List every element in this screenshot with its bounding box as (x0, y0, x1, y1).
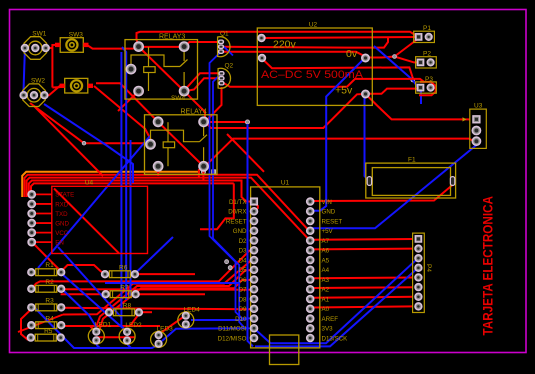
svg-text:+5v: +5v (335, 85, 353, 97)
svg-text:D4: D4 (239, 257, 247, 264)
svg-text:R4: R4 (45, 316, 54, 323)
svg-text:P3: P3 (425, 76, 433, 83)
svg-text:STATE: STATE (55, 192, 74, 199)
svg-text:P1: P1 (423, 25, 431, 32)
svg-text:220v: 220v (273, 38, 297, 50)
svg-text:VIN: VIN (322, 199, 332, 206)
svg-text:3V3: 3V3 (322, 326, 334, 333)
svg-text:RXD: RXD (55, 201, 69, 208)
svg-text:A5: A5 (322, 257, 330, 264)
svg-text:R1: R1 (45, 262, 54, 269)
svg-text:GND: GND (322, 209, 336, 216)
svg-text:D0/RX: D0/RX (228, 209, 246, 216)
svg-text:A4: A4 (322, 267, 330, 274)
svg-text:U2: U2 (309, 22, 318, 29)
svg-text:EN: EN (55, 239, 64, 246)
svg-text:R5: R5 (44, 328, 53, 335)
svg-text:LED2: LED2 (125, 322, 142, 329)
svg-text:Q2: Q2 (225, 63, 234, 70)
svg-text:AREF: AREF (322, 316, 339, 323)
svg-text:LED4: LED4 (184, 306, 201, 313)
svg-text:AC–DC 5V 500mA: AC–DC 5V 500mA (261, 69, 364, 81)
svg-text:A1: A1 (322, 296, 330, 303)
svg-text:GND: GND (55, 220, 69, 227)
svg-text:F1: F1 (408, 157, 416, 164)
svg-text:+5V: +5V (322, 228, 334, 235)
svg-text:LED3: LED3 (157, 325, 174, 332)
svg-text:R3: R3 (45, 298, 54, 305)
svg-text:D9: D9 (239, 306, 247, 313)
svg-text:R6: R6 (119, 265, 128, 272)
svg-text:VCC: VCC (55, 230, 69, 237)
svg-text:D1/TX: D1/TX (229, 199, 247, 206)
svg-text:TXD: TXD (55, 211, 68, 218)
svg-text:R8: R8 (123, 303, 132, 310)
svg-text:SW1: SW1 (32, 31, 46, 38)
svg-text:RELAY4: RELAY4 (181, 109, 207, 116)
svg-text:R7: R7 (120, 285, 129, 292)
svg-text:GND: GND (233, 228, 247, 235)
svg-text:D5: D5 (239, 267, 247, 274)
svg-text:RESET: RESET (226, 218, 247, 225)
svg-text:D7: D7 (239, 287, 247, 294)
svg-text:A3: A3 (322, 277, 330, 284)
svg-text:U3: U3 (474, 103, 483, 110)
svg-text:P2: P2 (423, 51, 431, 58)
svg-text:D6: D6 (239, 277, 247, 284)
svg-text:LED1: LED1 (95, 322, 112, 329)
svg-text:R2: R2 (45, 279, 54, 286)
svg-text:TARJETA ELECTRONICA: TARJETA ELECTRONICA (480, 196, 496, 336)
svg-text:A2: A2 (322, 287, 330, 294)
svg-text:D11/MOSI: D11/MOSI (218, 326, 247, 333)
svg-text:D12/MISO: D12/MISO (218, 335, 247, 342)
svg-text:D8: D8 (239, 296, 247, 303)
svg-text:0v: 0v (346, 48, 358, 60)
svg-text:A6: A6 (322, 248, 330, 255)
svg-text:D2: D2 (239, 238, 247, 245)
svg-text:P4: P4 (425, 264, 432, 272)
svg-text:A0: A0 (322, 306, 330, 313)
svg-text:U4: U4 (85, 180, 94, 187)
svg-text:D13/SCK: D13/SCK (322, 335, 349, 342)
svg-text:SW3: SW3 (69, 32, 83, 39)
svg-text:SW2: SW2 (31, 78, 45, 85)
svg-text:D10: D10 (235, 316, 247, 323)
svg-text:A7: A7 (322, 238, 330, 245)
svg-text:D3: D3 (239, 248, 247, 255)
svg-text:U1: U1 (281, 180, 290, 187)
svg-text:SW4: SW4 (171, 95, 185, 102)
svg-text:Q1: Q1 (220, 31, 229, 38)
svg-text:RESET: RESET (322, 218, 343, 225)
svg-text:RELAY3: RELAY3 (159, 33, 185, 40)
